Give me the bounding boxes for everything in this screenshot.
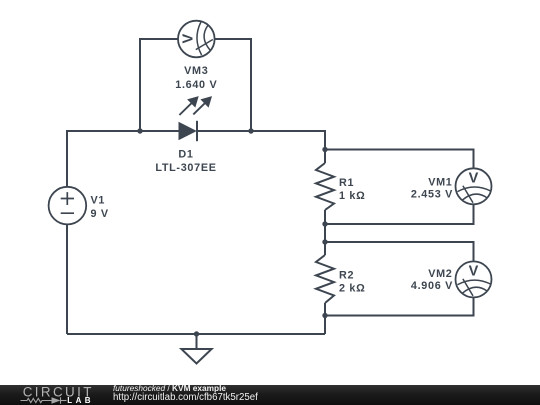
LED D1 [179,96,213,141]
node dot VM1 bottom [322,221,327,226]
svg-text:1.640 V: 1.640 V [175,79,217,91]
svg-text:VM2: VM2 [428,268,452,280]
svg-text:D1: D1 [178,149,193,161]
node dot VM2 bottom [322,313,327,318]
svg-text:9 V: 9 V [91,208,109,220]
junction node dots [137,128,327,336]
wire VM1 bottom branch [325,204,474,224]
footer bar [0,385,540,405]
node dot VM1 top [322,147,327,152]
credit text [113,384,258,403]
wire top-left: V1 plus to D1 anode [67,131,179,187]
node dot VM2 top [322,239,327,244]
wire right between R1 and R2 [324,210,326,255]
svg-text:V1: V1 [91,194,106,206]
resistor R2 [316,255,334,303]
svg-text:LAB: LAB [67,396,94,405]
svg-text:VM3: VM3 [184,65,208,77]
svg-text:2.453 V: 2.453 V [411,189,453,201]
voltmeter VM1 [456,168,492,204]
wire top-right: D1 cathode to R1 top [197,131,325,163]
resistor R1 [316,163,334,210]
wire VM1 top branch [325,150,474,169]
CircuitLab logo [0,385,110,405]
svg-text:2 kΩ: 2 kΩ [339,282,365,294]
voltmeter VM2 [456,261,492,297]
voltage source V1 [49,187,87,225]
svg-text:R2: R2 [339,269,354,281]
svg-text:1 kΩ: 1 kΩ [339,190,365,202]
svg-text:V: V [469,171,479,187]
wire right below R2 [324,303,326,334]
wire VM3 right branch [215,39,251,131]
svg-text:VM1: VM1 [428,176,452,188]
svg-text:LTL-307EE: LTL-307EE [155,162,216,174]
svg-text:R1: R1 [339,177,354,189]
node dot ground [194,331,199,336]
voltmeter VM3 [178,21,215,58]
node dot VM3 right [248,128,253,133]
wire left side below V1 [66,225,68,335]
wire VM2 top branch [325,242,474,262]
svg-text:V: V [469,264,479,280]
wire VM3 left branch [140,39,178,131]
ground [181,334,211,364]
wire VM2 bottom branch [325,297,474,315]
svg-text:4.906 V: 4.906 V [411,280,453,292]
wire bottom [67,333,325,335]
svg-text:V: V [181,34,197,44]
node dot VM3 left [137,128,142,133]
